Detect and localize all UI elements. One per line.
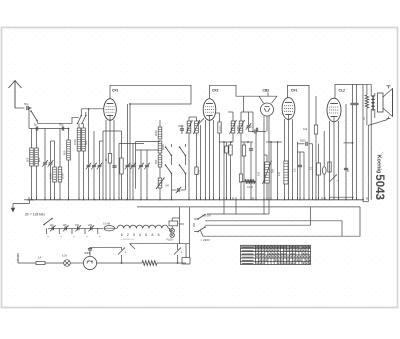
svg-text:o: o: [281, 245, 283, 249]
capacitor 5p input: [35, 126, 37, 130]
tube CF7: [282, 98, 295, 120]
resistor IF2 b: [229, 145, 232, 155]
wire top contact: [130, 103, 178, 105]
wire heater v2: [235, 200, 237, 214]
svg-text:220: 220: [88, 224, 93, 227]
svg-text:1M: 1M: [277, 172, 281, 176]
bus junctions: [28, 197, 30, 200]
wire trimmer osc1: [140, 150, 142, 165]
resistor 2k cathode: [108, 154, 111, 164]
svg-text:+: +: [125, 251, 127, 255]
wire x133: [132, 144, 134, 165]
wire lamp links: [171, 226, 173, 229]
switch osc4: [180, 165, 186, 174]
wire L1: [31, 129, 33, 149]
capacitor 50p input: [61, 126, 63, 130]
svg-text:5000: 5000: [300, 140, 306, 143]
wire CF1 plate to top: [110, 85, 111, 98]
wire top dc rail: [130, 243, 190, 245]
svg-text:10k: 10k: [303, 127, 308, 131]
svg-text:6: 6: [121, 233, 123, 237]
resistor 0,1M: [245, 179, 255, 183]
svg-text:500: 500: [154, 159, 158, 164]
wire mains loop2: [205, 221, 342, 236]
ground: [29, 200, 31, 204]
svg-text:≈ 220V: ≈ 220V: [201, 238, 211, 242]
variable capacitor CV1: [49, 162, 53, 164]
resistor CL2 cathode: [328, 162, 331, 172]
trimmer CT5: [131, 164, 135, 166]
wire speaker bottom: [368, 119, 388, 126]
svg-text:50k: 50k: [197, 169, 201, 174]
bus arrows: [24, 199, 30, 201]
svg-text:o: o: [284, 255, 286, 259]
capacitor 4uF a: [118, 248, 125, 255]
wire det links: [240, 160, 242, 174]
wire L6: [83, 124, 85, 129]
wire L2: [36, 129, 38, 149]
wire antenna to cap: [15, 107, 25, 109]
variable capacitor CV2: [87, 164, 91, 166]
wire CF7 legs: [284, 119, 286, 200]
trimmer osc 2: [145, 164, 149, 166]
svg-text:6: 6: [158, 233, 160, 237]
capacitor cathode bypass: [112, 165, 116, 167]
svg-text:+: +: [336, 179, 338, 183]
svg-text:600: 600: [37, 157, 41, 162]
transformer primary winding: [117, 225, 123, 228]
trimmer CT1: [43, 162, 47, 164]
wire heater v1: [223, 200, 225, 214]
capacitor 324: [322, 167, 326, 175]
switch S1a: [31, 111, 37, 121]
wire CF7 plate loop: [288, 85, 310, 199]
wire x200.5: [200, 125, 202, 200]
wire CF2 legs: [205, 120, 207, 200]
wire mains loop3: [205, 207, 360, 236]
resistor 10k: [314, 125, 317, 134]
wire x324: [323, 131, 325, 200]
wire band switch tops: [80, 109, 82, 116]
capacitor row: [29, 128, 69, 130]
svg-text:1M: 1M: [257, 172, 261, 176]
wire x224: [223, 142, 225, 200]
wire cap to node: [30, 107, 32, 109]
wire det row2: [241, 141, 253, 143]
resistor out grid: [317, 163, 321, 175]
svg-text:125: 125: [63, 224, 68, 227]
wire CT1: [44, 129, 46, 163]
wire lower bus: [137, 206, 360, 208]
valve data table: [241, 245, 311, 264]
resistor det: [239, 174, 242, 182]
capacitor det d: [249, 148, 253, 150]
svg-text:50p: 50p: [24, 102, 29, 106]
wire column x103: [102, 131, 104, 200]
wire heater row: [207, 213, 269, 215]
antenna: [9, 81, 22, 89]
capacitor C-ant 50p: [26, 106, 28, 110]
capacitor 0,1 det: [255, 128, 257, 132]
wire row131: [103, 130, 114, 132]
wire x297: [297, 142, 299, 200]
resistor tone: [365, 95, 368, 108]
coil L4 2000: [58, 167, 62, 182]
wire transformer right: [169, 228, 171, 231]
svg-text:0,1M: 0,1M: [247, 185, 253, 189]
svg-text:110: 110: [50, 224, 54, 227]
wire x179.5 col: [179, 207, 181, 218]
svg-text:1000: 1000: [73, 139, 77, 145]
wire CV1: [50, 141, 52, 162]
wire L4: [59, 129, 61, 168]
wire CL2 top loop: [335, 84, 363, 98]
wire row143: [119, 143, 144, 145]
svg-text:o: o: [293, 261, 295, 265]
capacitor CL2 cathode +: [330, 175, 337, 182]
svg-text:4000: 4000: [237, 125, 240, 131]
pilot lamp: [64, 260, 71, 267]
wire CF1 top run: [111, 85, 191, 104]
tube CF1: [104, 99, 117, 121]
switch osc3: [180, 147, 186, 156]
wire mains input: [18, 262, 36, 264]
VDR box: [169, 221, 178, 226]
svg-text:+: +: [181, 251, 183, 255]
dial lamp 1: [170, 228, 174, 232]
resistor IF2 a: [225, 146, 228, 153]
trimmer CT2: [92, 164, 96, 166]
svg-text:Koenig: Koenig: [376, 155, 382, 175]
wire CL2 cathode link: [329, 196, 354, 198]
trimmer CF2 grid: [197, 118, 204, 125]
tube CF2: [203, 99, 216, 121]
resistor det c: [242, 145, 245, 156]
svg-text:o: o: [300, 258, 302, 262]
coil L6 500: [82, 128, 86, 151]
wire mains stub: [193, 223, 195, 227]
wire x189 column: [188, 125, 190, 200]
tube CL2: [327, 98, 341, 122]
IF2 coil primary: [231, 121, 235, 133]
coil Lm 600: [67, 140, 71, 160]
wire x363: [362, 84, 364, 201]
speaker: [378, 93, 384, 112]
svg-text:Uf4: Uf4: [165, 185, 169, 188]
wire IF2: [232, 112, 234, 121]
wire CY1 anode top: [89, 251, 91, 257]
svg-text:CF2: CF2: [212, 89, 219, 93]
wire selector row: [48, 227, 103, 229]
coil L1 500: [30, 148, 34, 166]
capacitor out 1: [350, 102, 354, 104]
trimmer CT3: [98, 164, 102, 166]
coil L2 600: [35, 148, 39, 166]
svg-text:0,5: 0,5: [294, 168, 297, 172]
wire row142.9: [344, 142, 353, 144]
svg-text:o: o: [290, 261, 292, 265]
mains switch: [198, 215, 205, 220]
wire x271: [270, 142, 272, 200]
wire x277.6: [277, 142, 279, 200]
capacitor pad 2000: [180, 128, 184, 130]
svg-text:FL/D+: FL/D+: [167, 238, 175, 242]
svg-text:0,1: 0,1: [310, 166, 313, 170]
voltage selector taps: [51, 226, 53, 230]
wire fuse to lamp: [45, 262, 64, 264]
switch osc2: [166, 165, 172, 174]
capacitor IF2 out: [254, 129, 256, 133]
dial lamp 2: [170, 233, 174, 237]
svg-text:2: 2: [127, 233, 129, 237]
wire CB2 anode: [266, 116, 268, 132]
svg-text:5043: 5043: [373, 174, 385, 200]
svg-text:CF1: CF1: [112, 89, 119, 93]
wire af row2: [298, 143, 305, 145]
wire CY1 out: [97, 262, 142, 264]
wire x130 column: [129, 104, 131, 200]
wire CF2 plate top: [210, 85, 260, 98]
svg-text:o: o: [262, 261, 264, 265]
svg-text:500: 500: [84, 140, 88, 145]
switch osc1: [166, 147, 172, 156]
wire osc links: [136, 141, 160, 143]
wire x121.5: [121, 131, 123, 158]
wire L3: [54, 141, 56, 167]
svg-text:a 220·110 V≈: a 220·110 V≈: [121, 238, 135, 241]
capacitor 5000: [305, 142, 307, 146]
trimmer osc 1: [139, 164, 143, 166]
coil L5 1000: [77, 128, 81, 151]
capacitor af couple: [298, 164, 302, 166]
switch S1b: [78, 116, 82, 124]
resistor 50k osc: [195, 167, 198, 175]
wire CB2 legs: [263, 116, 265, 200]
svg-text:2000: 2000: [61, 173, 65, 179]
svg-text:0,1: 0,1: [250, 124, 254, 128]
IF1 coil primary: [187, 121, 191, 133]
wire L5 down: [78, 124, 80, 129]
svg-text:CB2: CB2: [263, 89, 270, 93]
wire mains loop1: [205, 207, 311, 225]
wire link row141: [51, 140, 55, 142]
speaker terminals: [387, 85, 391, 87]
trimmer CT4: [126, 164, 130, 166]
wire af row: [266, 141, 282, 143]
svg-text:o: o: [296, 248, 298, 252]
svg-text:4000: 4000: [220, 125, 223, 131]
wire pot: [266, 155, 268, 162]
coil L3 1000: [53, 167, 57, 182]
resistor CF7 grid: [284, 161, 288, 184]
svg-text:6: 6: [139, 233, 141, 237]
svg-text:8: 8: [152, 233, 154, 237]
wire CF2 screen: [219, 113, 221, 122]
svg-text:2000: 2000: [154, 130, 158, 136]
wire osc coils: [159, 120, 161, 127]
wire det row: [258, 131, 267, 133]
svg-text:5000: 5000: [161, 144, 165, 150]
capacitor 346: [344, 167, 348, 169]
wire x68.5: [68, 129, 70, 141]
wire x119: [118, 144, 120, 200]
wire after filter: [157, 262, 186, 264]
fuse 110/4: [104, 226, 114, 231]
wire switch run: [37, 117, 79, 123]
IF2 coil secondary: [239, 121, 243, 133]
wire CT2: [93, 131, 95, 165]
svg-text:600: 600: [63, 150, 67, 155]
svg-text:2000: 2000: [178, 125, 184, 128]
svg-text:o: o: [272, 255, 274, 259]
wire osc column top: [135, 142, 137, 189]
wire x127.5: [127, 104, 129, 165]
wire trimmer osc2: [146, 150, 148, 165]
wire x304: [303, 152, 305, 200]
potentiometer volume 1M: [265, 162, 270, 183]
wire top bar: [335, 83, 371, 85]
wire main ground bus: [27, 199, 364, 201]
svg-text:1000: 1000: [49, 173, 53, 179]
resistor CF2 screen: [218, 122, 221, 133]
svg-text:50p: 50p: [59, 123, 64, 127]
wire CT3: [99, 141, 101, 165]
svg-text:5: 5: [133, 233, 135, 237]
tube CY1: [83, 256, 96, 269]
wire x256 col: [255, 132, 257, 200]
output transformer: [371, 96, 373, 99]
capacitor 4uF b: [174, 248, 181, 255]
svg-text:150: 150: [75, 224, 80, 227]
switch mains-left: [44, 219, 52, 225]
svg-text:6,3V: 6,3V: [62, 255, 67, 258]
fuse 1A: [36, 261, 45, 264]
svg-text:500: 500: [26, 157, 30, 162]
wire CB2 top: [267, 93, 269, 97]
capacitor out 2: [354, 102, 358, 104]
tube CB2: [261, 103, 274, 116]
wire x189.5 col: [189, 207, 191, 257]
wire IF2 row: [219, 141, 233, 143]
wire IF1 tops: [189, 116, 197, 118]
svg-text:ZF = 128 kHz: ZF = 128 kHz: [25, 213, 45, 217]
svg-text:1/0,4A: 1/0,4A: [103, 222, 111, 225]
coil osc A 2000: [158, 127, 162, 139]
wire x318: [318, 144, 320, 163]
bus junction dots: [32, 199, 33, 200]
coil osc C 500: [158, 155, 162, 167]
svg-text:0,1-GW: 0,1-GW: [202, 214, 211, 217]
wire x196.5: [196, 120, 198, 200]
wire CF1 legs: [105, 120, 107, 200]
wire x346 col: [345, 104, 347, 200]
trimmer IF2a: [247, 125, 251, 127]
svg-text:6: 6: [145, 233, 147, 237]
contact arrow dc: [130, 244, 135, 249]
wire CL2 legs: [329, 121, 331, 200]
wire osc row: [136, 149, 160, 151]
CB2 funnel: [259, 95, 277, 97]
svg-text:CL2: CL2: [339, 89, 346, 93]
wire IF2 link: [243, 96, 245, 112]
selector stubs: [46, 228, 48, 234]
coil osc tune: [158, 178, 162, 188]
svg-text:CF1: CF1: [291, 89, 298, 93]
wire CV2: [88, 109, 90, 165]
wire osc bottom: [159, 188, 161, 200]
trimmer osc bottom: [177, 188, 179, 192]
wire grid row: [81, 108, 103, 110]
svg-text:1A: 1A: [38, 256, 41, 260]
switch S1c: [82, 116, 86, 124]
wire lamp to CY1: [70, 262, 83, 264]
wire node down: [28, 108, 30, 129]
coil osc B 5000: [158, 141, 162, 153]
resistor filter: [142, 261, 157, 266]
resistor screen CF1: [120, 158, 123, 174]
connector box: [182, 258, 190, 265]
IF1 coil secondary: [195, 121, 199, 133]
